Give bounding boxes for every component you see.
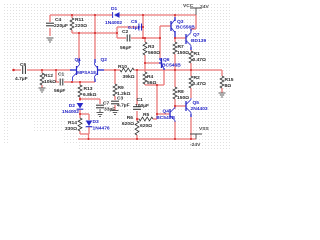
svg-text:Q2: Q2 bbox=[101, 57, 108, 63]
svg-text:C1: C1 bbox=[137, 97, 144, 103]
svg-text:Q3: Q3 bbox=[177, 19, 184, 25]
svg-text:D3: D3 bbox=[93, 119, 100, 125]
svg-text:R6: R6 bbox=[127, 115, 134, 121]
svg-text:-24V: -24V bbox=[190, 142, 201, 148]
svg-text:24V: 24V bbox=[200, 4, 209, 10]
svg-text:R3: R3 bbox=[148, 44, 155, 50]
svg-text:BD139: BD139 bbox=[191, 38, 207, 44]
svg-text:4.7µF: 4.7µF bbox=[15, 76, 28, 82]
svg-text:R15: R15 bbox=[225, 77, 234, 83]
svg-text:150Ω: 150Ω bbox=[177, 95, 189, 101]
svg-text:6.8kΩ: 6.8kΩ bbox=[83, 92, 97, 98]
svg-text:R13: R13 bbox=[84, 86, 93, 92]
svg-text:Q6: Q6 bbox=[163, 57, 170, 63]
svg-text:MPSA18: MPSA18 bbox=[77, 70, 96, 75]
svg-text:4.7µF: 4.7µF bbox=[117, 103, 130, 109]
svg-text:620Ω: 620Ω bbox=[140, 123, 152, 129]
svg-text:100µF: 100µF bbox=[135, 103, 149, 109]
svg-text:BC556B: BC556B bbox=[176, 25, 195, 31]
svg-text:D1: D1 bbox=[111, 6, 118, 12]
svg-text:R12: R12 bbox=[44, 73, 53, 79]
svg-text:1N4002: 1N4002 bbox=[105, 20, 122, 26]
svg-text:R9: R9 bbox=[118, 85, 125, 91]
svg-text:BC546B: BC546B bbox=[162, 63, 181, 69]
svg-text:0.1µF: 0.1µF bbox=[128, 25, 141, 31]
svg-text:VSS: VSS bbox=[199, 126, 210, 132]
svg-text:10kΩ: 10kΩ bbox=[44, 79, 56, 85]
svg-text:8Ω: 8Ω bbox=[225, 83, 232, 89]
svg-text:R14: R14 bbox=[68, 120, 77, 126]
svg-text:C5: C5 bbox=[131, 19, 138, 25]
svg-text:R8: R8 bbox=[178, 89, 185, 95]
svg-text:2N4403: 2N4403 bbox=[191, 106, 208, 112]
svg-text:0.47Ω: 0.47Ω bbox=[193, 57, 207, 63]
svg-text:Q4: Q4 bbox=[162, 109, 169, 115]
svg-text:VCC: VCC bbox=[183, 3, 194, 9]
svg-text:1N4002: 1N4002 bbox=[62, 109, 79, 115]
svg-text:R2: R2 bbox=[194, 75, 201, 81]
svg-text:D2: D2 bbox=[69, 103, 76, 109]
svg-text:R11: R11 bbox=[75, 17, 84, 23]
svg-text:R10: R10 bbox=[118, 64, 127, 70]
svg-text:BC547B: BC547B bbox=[156, 115, 175, 121]
svg-text:Q5: Q5 bbox=[193, 100, 200, 106]
svg-text:Q1: Q1 bbox=[75, 57, 82, 63]
svg-text:560Ω: 560Ω bbox=[148, 50, 160, 56]
svg-text:150Ω: 150Ω bbox=[177, 50, 189, 56]
svg-text:R7: R7 bbox=[178, 44, 185, 50]
svg-text:33µF: 33µF bbox=[104, 107, 115, 113]
svg-text:R1: R1 bbox=[194, 51, 201, 57]
svg-text:C2: C2 bbox=[122, 29, 129, 35]
svg-text:56pF: 56pF bbox=[120, 45, 131, 51]
svg-text:Q7: Q7 bbox=[193, 32, 200, 38]
svg-text:C4: C4 bbox=[55, 17, 62, 23]
svg-text:330Ω: 330Ω bbox=[65, 126, 77, 132]
svg-text:220µF: 220µF bbox=[54, 23, 68, 29]
svg-text:620Ω: 620Ω bbox=[122, 121, 134, 127]
svg-text:0.47Ω: 0.47Ω bbox=[193, 81, 207, 87]
svg-text:220Ω: 220Ω bbox=[75, 23, 87, 29]
svg-text:R4: R4 bbox=[147, 74, 154, 80]
svg-text:C3: C3 bbox=[117, 96, 124, 102]
svg-text:56pF: 56pF bbox=[54, 88, 65, 94]
svg-text:39kΩ: 39kΩ bbox=[123, 74, 135, 80]
svg-text:C6: C6 bbox=[20, 62, 27, 68]
svg-text:1N4476: 1N4476 bbox=[93, 126, 110, 132]
svg-text:C7: C7 bbox=[103, 101, 110, 107]
svg-text:56Ω: 56Ω bbox=[147, 80, 156, 86]
svg-text:R5: R5 bbox=[143, 112, 150, 118]
svg-text:C1: C1 bbox=[58, 72, 65, 78]
